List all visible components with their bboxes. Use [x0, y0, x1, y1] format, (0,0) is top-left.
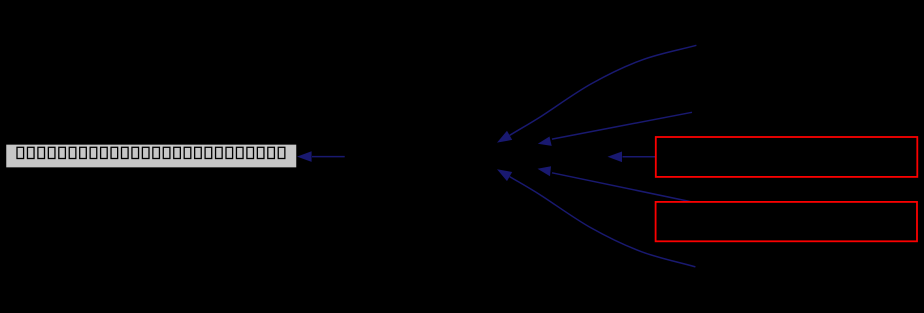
- wire: edge E1 from hidden caller (top) to hidden node X: [497, 45, 696, 142]
- wire: edge E5 from hidden caller (bottom) to hidden node X: [497, 169, 695, 267]
- wire: edge E3 from red node R1 to hidden node X: [608, 152, 656, 163]
- wire: edge E2 from hidden caller (upper) to hidden node X: [538, 112, 692, 146]
- node R2: truncated caller node (red outline): [656, 202, 917, 241]
- node N1 label: row of 26 missing-glyph (tofu) boxes: [17, 147, 285, 158]
- node R1: truncated caller node (red outline): [656, 137, 918, 177]
- wire: edge E0 from hidden node X to node N1: [297, 151, 345, 162]
- wire: edge E4 from red node R2 to hidden node X: [538, 166, 691, 201]
- node N1: current function (grey filled box, label glyphs missing): [6, 144, 298, 168]
